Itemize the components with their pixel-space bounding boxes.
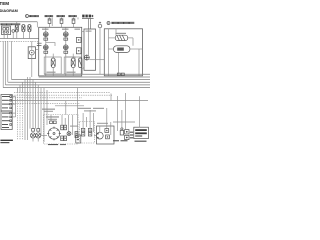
connector cap P1b	[53, 121, 56, 124]
label mid small	[70, 126, 78, 127]
relay box label text	[111, 22, 134, 24]
component stack right 1	[120, 110, 123, 135]
wire diode link	[41, 134, 47, 136]
inner sub-box 1	[44, 57, 61, 74]
relay R5	[109, 35, 134, 46]
relay R5 label	[116, 33, 127, 34]
connector table C-1	[1, 95, 12, 112]
bus wire 5	[5, 84, 150, 86]
dashed enclosure fan motor front	[44, 115, 79, 145]
coil symbol L5	[71, 54, 75, 76]
harness drop 9	[37, 85, 39, 129]
wire left drop 1	[2, 41, 4, 87]
dashed harness wire 2	[12, 94, 112, 96]
relay R1	[43, 32, 48, 40]
compressor box	[84, 29, 96, 70]
inner comp right A	[76, 37, 81, 42]
wire compressor inner	[88, 29, 90, 55]
wire battery feed down	[90, 18, 92, 29]
diode D1	[30, 133, 35, 138]
coil symbol L3	[28, 25, 31, 39]
wire diode feet	[33, 138, 38, 142]
wire fusible to box	[115, 29, 117, 35]
harness drop 8	[35, 82, 37, 128]
wire left drop 2	[4, 41, 6, 85]
harness drop 2	[19, 85, 21, 92]
wire long feed upper left	[0, 21, 37, 23]
bus wire 2	[39, 76, 150, 78]
label text above right cluster	[78, 108, 108, 124]
wire right drops	[118, 93, 140, 131]
diode D2	[36, 133, 41, 138]
wire J/B link 2	[66, 57, 75, 59]
terminal stack T3	[81, 128, 84, 136]
footnote text mid	[48, 144, 66, 145]
relay R4	[63, 45, 68, 53]
node label circled 2	[107, 21, 110, 25]
inner comp right B	[76, 48, 81, 54]
side connector left	[75, 132, 78, 138]
coil symbol L2	[22, 25, 25, 39]
wire right horiz link	[113, 121, 135, 123]
junction block J/B	[39, 27, 82, 76]
connector cap D1	[32, 129, 35, 132]
connector cap P1a	[50, 121, 53, 124]
harness drop 4	[24, 80, 26, 141]
harness drop 11	[43, 88, 45, 142]
dashed harness wire 4	[13, 102, 80, 104]
condenser fan motor M1	[28, 41, 38, 77]
wire right box column	[108, 29, 110, 76]
junction dot symbol	[12, 30, 15, 39]
harness drop 5	[27, 77, 29, 140]
bus wire lower	[0, 40, 39, 42]
wire J/B column 2	[65, 27, 67, 76]
left cluster label text	[0, 23, 20, 25]
wire stub from J/B right 1	[82, 31, 84, 33]
harness drop 10	[40, 88, 42, 135]
terminal stack T4	[88, 128, 91, 136]
relay R6	[109, 46, 143, 53]
bus wire 6	[3, 87, 150, 89]
battery label block	[82, 15, 94, 19]
bus wire 4	[8, 81, 150, 83]
compressor box label	[86, 31, 92, 32]
component stack right 2	[125, 130, 129, 140]
tick marks under labels	[77, 17, 79, 19]
compressor clutch symbol	[84, 55, 90, 61]
label text mid-bottom	[42, 109, 55, 112]
bus wire 3	[12, 79, 151, 81]
harness drop 12	[77, 88, 79, 135]
terminal pair T1	[61, 125, 67, 130]
relay R2	[63, 32, 68, 40]
fuse F1	[48, 19, 51, 28]
relay coil label row	[42, 29, 80, 30]
fusible link circle	[98, 22, 102, 75]
inner component K2b	[106, 135, 110, 139]
inner component K2a	[105, 129, 109, 133]
fuse F3	[72, 19, 75, 28]
relay box outline right	[104, 29, 142, 76]
harness drop 7	[32, 80, 34, 129]
harness drop 6	[29, 77, 31, 129]
inline connector pair on bus	[117, 73, 124, 75]
fan motor M2	[94, 126, 103, 139]
fan connector label	[46, 116, 59, 119]
inner sub-box 2	[64, 57, 81, 74]
ground arrow G1	[37, 43, 42, 47]
dark text right of stacks	[130, 132, 133, 139]
harness drop 1	[17, 88, 19, 92]
bus wire upper	[0, 38, 39, 40]
wire label-row leads	[50, 17, 74, 26]
footnote text right	[113, 140, 147, 142]
wire fan motor lead	[50, 115, 52, 121]
coil symbol L1	[15, 22, 18, 38]
wire relay2 bottom drop	[118, 52, 120, 75]
wire rear cluster verticals	[83, 110, 93, 132]
wire left drop 3	[7, 41, 9, 82]
wire right box inner drop	[138, 49, 140, 76]
wire bottom mid verticals	[62, 101, 73, 135]
harness wire long	[8, 100, 148, 102]
connector table C-2	[1, 111, 12, 130]
fuse F2	[60, 19, 63, 28]
wire relay box leads	[4, 35, 7, 39]
wire table collector	[12, 97, 15, 118]
wire motor box leads	[107, 108, 111, 135]
legend box	[134, 127, 149, 138]
wire mid horizontal segment	[55, 105, 84, 107]
wire left drop 4	[11, 41, 13, 79]
coil symbol L6 partial	[79, 58, 82, 68]
wire J/B column 1	[45, 27, 47, 76]
J/B inner label row bottom	[47, 72, 76, 73]
wire compressor bottom exit	[82, 68, 84, 74]
coil symbol L4	[51, 54, 55, 76]
harness drop 3	[22, 82, 24, 92]
terminal pair T2	[61, 136, 67, 141]
top label row text	[29, 15, 39, 17]
bus wire 1	[44, 73, 150, 75]
wire J/B link 1	[46, 43, 55, 46]
fan motor connector P1	[47, 127, 61, 141]
harness drop 11b	[46, 90, 48, 125]
connector cap D2	[37, 129, 40, 132]
dashed enclosure fan motor rear	[80, 122, 95, 144]
fan motor box rear	[97, 126, 115, 144]
small connector circle	[67, 132, 71, 136]
wire second feed	[88, 18, 90, 29]
dashed harness wire 1	[14, 92, 110, 94]
relay R3	[43, 45, 48, 53]
relay box K1	[2, 26, 11, 35]
wire clutch link	[89, 59, 104, 61]
wire short vertical right of dashes	[110, 94, 112, 101]
svg-text:TEM: TEM	[0, 1, 9, 6]
node label circled 1	[26, 14, 29, 18]
svg-text:DIAGRAM: DIAGRAM	[0, 9, 18, 13]
small box lower mid	[76, 135, 81, 143]
dashed harness wire 3	[10, 97, 82, 99]
footnote text left	[0, 140, 13, 144]
